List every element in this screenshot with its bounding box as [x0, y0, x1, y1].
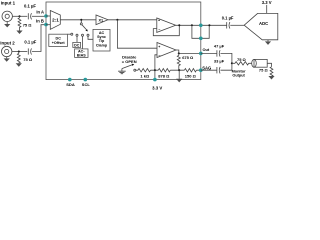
pin SDA [68, 78, 72, 82]
resistor 75 Ohm (series output) [232, 57, 252, 65]
svg-text:X1: X1 [98, 18, 103, 22]
svg-text:DC: DC [74, 43, 80, 47]
block AC-BIAS [75, 49, 88, 58]
resistor 1 kOhm [138, 69, 151, 79]
node junction (split to U2) [116, 19, 118, 21]
capacitor 0.1uF (Input 2) [28, 48, 31, 54]
svg-text:675 Ω: 675 Ω [182, 55, 194, 60]
wire (SAG to cap 33uF) [201, 69, 217, 71]
node junction (output combine) [231, 62, 233, 64]
wire (U1 output) [176, 24, 227, 26]
node junction (1k / 878 / U2 inv) [154, 69, 156, 71]
svg-text:0.1 µF: 0.1 µF [24, 4, 36, 9]
wire (cap 2 up to In B pin) [32, 25, 46, 52]
capacitor 47uF [217, 50, 220, 56]
amplifier X1 [96, 15, 108, 25]
svg-text:3.3 V: 3.3 V [262, 0, 272, 5]
block AC Sync Tip Clamp [93, 29, 110, 51]
svg-text:75 Ω: 75 Ω [23, 57, 33, 62]
ground (under Input 1 jack) [4, 22, 10, 28]
svg-text:Out: Out [203, 47, 210, 52]
svg-text:150 Ω: 150 Ω [185, 73, 197, 78]
pin Out [199, 52, 203, 56]
ground (monitor shunt) [268, 76, 274, 80]
resistor 75 Ohm (Input 1 termination) [18, 16, 21, 30]
wire (cap 33uF to junction) [221, 63, 232, 70]
svg-text:3.3 V: 3.3 V [152, 85, 162, 90]
capacitor 33uF [217, 67, 220, 73]
switch arm (disable) [122, 64, 134, 69]
ground (under 75 Ohm input 1) [16, 31, 22, 35]
node junction (Input 1 / 75ohm) [18, 15, 20, 17]
svg-text:Input 2: Input 2 [0, 40, 15, 45]
svg-text:−: − [158, 27, 160, 31]
wire (U1 feedback loop) [153, 25, 179, 35]
ground (disable switch) [118, 69, 126, 74]
pin SAG [199, 68, 203, 72]
wire (divider row) [136, 69, 201, 71]
svg-text:+: + [158, 19, 160, 23]
svg-text:SAG: SAG [202, 65, 211, 70]
svg-text:= OPEN: = OPEN [122, 59, 137, 64]
ground (ADC) [265, 40, 271, 45]
pin SCL [84, 78, 88, 82]
contact circle (DC) [76, 34, 78, 42]
svg-text:In A: In A [36, 9, 44, 14]
supply 3.3 V (ADC) [262, 0, 272, 13]
svg-text:SDA: SDA [66, 82, 75, 87]
switch contact (disable) [134, 69, 136, 71]
pin In B [44, 23, 48, 27]
svg-text:DC: DC [56, 36, 62, 40]
resistor 150 Ohm [184, 69, 196, 79]
wire (cap to ADC) [230, 24, 244, 26]
capacitor 0.1uF (Input 1) [28, 13, 31, 19]
svg-text:2:1: 2:1 [52, 18, 59, 23]
ground (divider) [176, 70, 182, 82]
op-amp U1 [157, 18, 176, 32]
svg-text:75 Ω: 75 Ω [23, 23, 33, 28]
switch pole contact [80, 21, 82, 25]
svg-text:+: + [158, 45, 160, 49]
svg-text:878 Ω: 878 Ω [158, 73, 170, 78]
pin (amp out) [199, 24, 203, 28]
svg-text:SCL: SCL [82, 82, 91, 87]
svg-text:Tip: Tip [99, 39, 105, 43]
node junction (selector tap) [80, 19, 82, 21]
svg-text:33 µF: 33 µF [214, 59, 225, 64]
svg-text:47 µF: 47 µF [214, 43, 225, 48]
wire (cap 1 to In A pin) [32, 15, 46, 17]
node junction (outside bridge) [208, 24, 210, 26]
svg-text:+Offset: +Offset [52, 41, 66, 45]
node junction (U2 out) [178, 52, 180, 54]
contact circle (DC +Offset) [68, 33, 73, 35]
ground (under 75 Ohm input 2) [16, 63, 22, 66]
svg-text:−: − [158, 54, 160, 58]
label Monitor Output [232, 69, 246, 77]
pin (feedback) [199, 37, 203, 41]
block DC +Offset [49, 34, 68, 46]
mux 2:1 [50, 11, 60, 30]
wire (U2 inverting input to divider) [155, 55, 157, 70]
svg-text:BIAS: BIAS [77, 54, 86, 58]
wire (U2 output) [176, 50, 201, 53]
pin 3.3 V [153, 78, 157, 82]
wire (bridge through pins) [192, 25, 209, 38]
svg-text:Output: Output [232, 74, 245, 78]
input jack J2 (Input 2) [2, 46, 12, 56]
node junction (U1 out / bridge) [191, 24, 193, 26]
wire (3.3V pin drop) [154, 70, 156, 79]
contact circle (AC-BIAS) [82, 34, 84, 49]
wire (Out to cap 47uF) [201, 52, 217, 54]
resistor 75 Ohm (shunt) [259, 67, 273, 77]
svg-text:ADC: ADC [259, 21, 268, 26]
wire (cap 47uF to junction) [221, 53, 232, 63]
wire (jack to 75 Ohm shunt) [267, 63, 271, 67]
ground (under Input 2 jack) [4, 57, 10, 62]
wire (In A to mux) [46, 15, 50, 17]
block DC bias [73, 42, 81, 47]
capacitor 0.1uF (ADC coupling) [227, 22, 230, 28]
switch arm (input bias selector) [82, 25, 88, 32]
wire (jack 1 to cap) [12, 15, 27, 17]
op-amp U2 [157, 43, 176, 58]
svg-text:0.1 µF: 0.1 µF [222, 15, 234, 20]
node junction (Input 2 / 75ohm) [18, 50, 20, 52]
resistor 75 Ohm (Input 2 termination) [17, 52, 20, 64]
wire (riser to lower amp U2 input) [117, 20, 157, 48]
IC boundary box [46, 2, 201, 80]
resistor 675 Ohm [177, 53, 194, 70]
node junction (878 / 150 / 675) [178, 69, 180, 71]
wire (X1 to op-amp U1) [108, 19, 157, 21]
svg-text:In B: In B [36, 18, 44, 23]
svg-text:0.1 µF: 0.1 µF [24, 39, 36, 44]
svg-text:75 Ω: 75 Ω [259, 67, 269, 72]
svg-text:Clamp: Clamp [96, 44, 108, 48]
contact circle (AC Sync Tip Clamp) [87, 34, 93, 39]
label Disable = OPEN [122, 55, 137, 64]
resistor 878 Ohm [158, 69, 170, 79]
input jack J1 (Input 1) [2, 11, 12, 21]
monitor output jack [252, 59, 268, 67]
svg-text:75 Ω: 75 Ω [237, 57, 247, 62]
wire (mux to X1) [60, 19, 96, 21]
svg-text:Input 1: Input 1 [1, 0, 16, 5]
ADC block [244, 13, 278, 39]
wire (In B to mux) [46, 24, 50, 26]
node junction (U1 out / feedback) [178, 24, 180, 26]
pin In A [44, 14, 48, 18]
svg-text:1 kΩ: 1 kΩ [140, 73, 150, 78]
wire (jack 2 to cap) [12, 51, 27, 53]
